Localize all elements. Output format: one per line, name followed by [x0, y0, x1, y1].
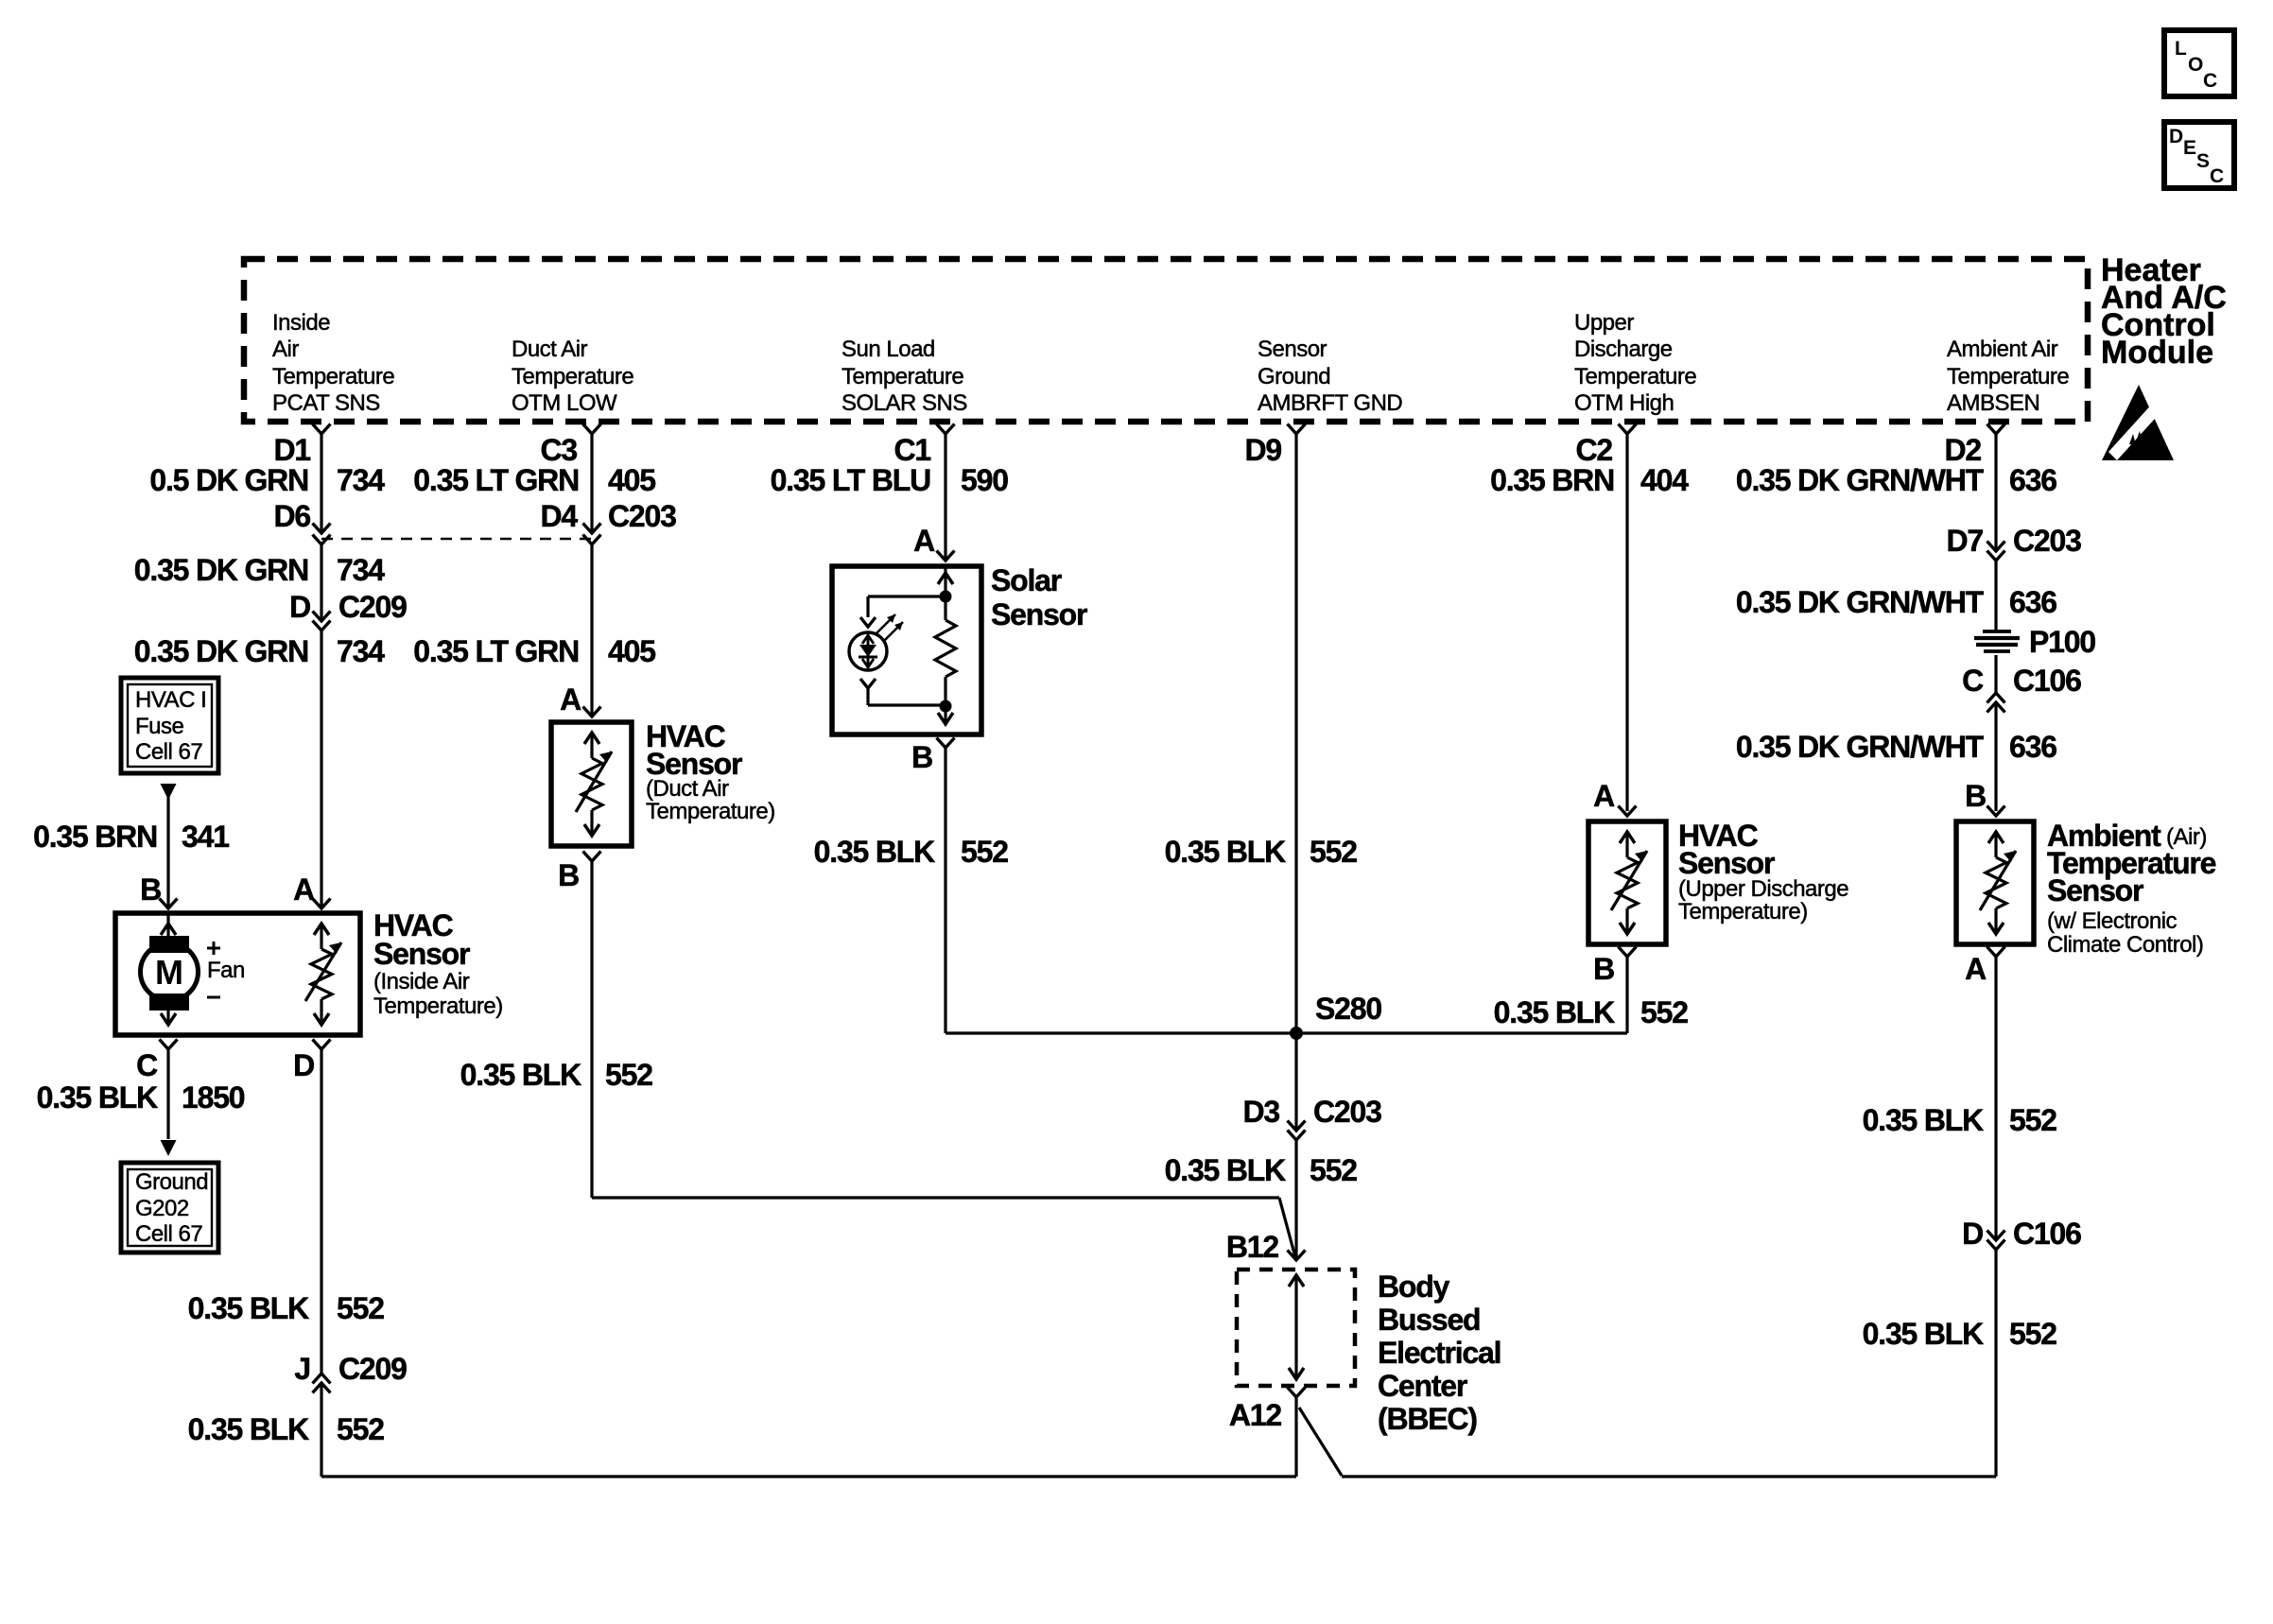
svg-text:0.35 BLK: 0.35 BLK [188, 1291, 309, 1325]
ambient temperature sensor box [1956, 821, 2034, 944]
svg-text:636: 636 [2009, 730, 2056, 764]
inline connector C203 dashed line [321, 538, 592, 541]
connector C203 D7 arrow [1987, 542, 2005, 552]
pin function label SOLAR SNS (Sun Load Temperature) [842, 337, 967, 416]
pin function label PCAT SNS (Inside Air Temperature) [272, 310, 394, 416]
svg-text:Cell 67: Cell 67 [135, 1221, 202, 1247]
HVAC sensor box (Duct Air Temperature) [551, 722, 632, 846]
pin B label at blower motor [140, 872, 161, 907]
svg-text:A: A [1965, 952, 1987, 986]
svg-text:734: 734 [337, 634, 385, 668]
svg-text:Sensor: Sensor [1258, 337, 1327, 362]
svg-text:AMBRFT GND: AMBRFT GND [1258, 390, 1402, 416]
svg-text:405: 405 [608, 634, 655, 668]
connector C106 pin D label [1962, 1217, 2081, 1251]
duct air temperature thermistor [576, 733, 612, 836]
ground bus wire (left segment) [321, 1475, 1296, 1477]
svg-text:404: 404 [1640, 463, 1689, 497]
pin B chevron below duct sensor [583, 852, 601, 862]
connector C106 pin C label [1962, 664, 2081, 698]
wire 552 from solar sensor to splice S280 [946, 748, 1296, 1033]
svg-text:590: 590 [961, 463, 1008, 497]
svg-text:D3: D3 [1242, 1095, 1279, 1129]
svg-text:734: 734 [337, 463, 385, 497]
svg-text:Fan: Fan [207, 958, 245, 983]
wire 636 from D2 to C203 D7 [1994, 434, 1997, 551]
svg-text:0.35 BLK: 0.35 BLK [1165, 835, 1286, 869]
svg-text:C3: C3 [540, 433, 577, 467]
svg-text:Sensor: Sensor [1678, 846, 1775, 880]
svg-text:Bussed: Bussed [1378, 1303, 1480, 1337]
svg-text:(Duct Air: (Duct Air [646, 776, 729, 802]
pin B label at solar sensor [911, 740, 932, 774]
svg-text:0.35 BLK: 0.35 BLK [460, 1058, 581, 1092]
power feed arrow from fuse [161, 784, 177, 800]
svg-text:(w/ Electronic: (w/ Electronic [2047, 908, 2178, 934]
connector chart box LOC [2164, 30, 2234, 96]
pin D6 label [273, 499, 310, 533]
diagonal wire from A12 to right ground bus [1299, 1408, 1342, 1476]
ground feed arrow [161, 1140, 177, 1156]
pin A label at ambient sensor [1965, 952, 1987, 986]
wire 636 from C106 to ambient sensor pin B [1994, 702, 1997, 811]
wire 552 from C203 to BBEC B12 [1294, 1140, 1297, 1260]
label 0.35 DK GRN/WHT 636 [1736, 463, 2056, 497]
label 0.35 LT GRN 405 [413, 463, 655, 497]
svg-text:552: 552 [2009, 1103, 2056, 1137]
solar sensor name label [991, 563, 1087, 631]
BBEC name label [1378, 1270, 1501, 1436]
svg-text:A: A [913, 524, 935, 558]
svg-text:0.35 BLK: 0.35 BLK [1863, 1103, 1984, 1137]
pin A chevron at solar sensor [937, 551, 955, 561]
svg-text:C1: C1 [894, 433, 930, 467]
wire 636 from C203 to grommet P100 [1994, 561, 1997, 631]
svg-text:A12: A12 [1229, 1398, 1282, 1432]
blower motor M symbol [141, 913, 199, 1025]
svg-text:B12: B12 [1226, 1230, 1279, 1264]
wire 552 from C209 J to ground bus [320, 1383, 322, 1477]
svg-text:Upper: Upper [1574, 310, 1634, 336]
svg-text:B: B [911, 740, 932, 774]
svg-text:D6: D6 [273, 499, 310, 533]
svg-text:S: S [2196, 150, 2210, 172]
svg-text:C203: C203 [2013, 524, 2081, 558]
wire 552 from C106 to ground bus [1994, 1250, 1997, 1477]
svg-text:Ground: Ground [135, 1169, 208, 1195]
wire 552 from S280 to C203 D3 [1294, 1033, 1297, 1131]
svg-text:(BBEC): (BBEC) [1378, 1402, 1477, 1436]
pin B label at duct sensor [558, 858, 579, 892]
label 0.35 DK GRN/WHT 636 (third) [1736, 730, 2056, 764]
pin A label at upper discharge sensor [1593, 779, 1615, 813]
motor polarity plus sign [207, 942, 220, 955]
connector C106 C up-arrow [1987, 702, 2005, 713]
svg-text:Ground: Ground [1258, 364, 1330, 389]
svg-text:P100: P100 [2029, 625, 2095, 659]
label Fan [207, 958, 245, 983]
connector C203 chevron (wire 2) [583, 535, 601, 545]
pin A12 label [1229, 1398, 1282, 1432]
pin B chevron [160, 899, 178, 909]
svg-text:552: 552 [605, 1058, 652, 1092]
ground box G202 Cell 67 [121, 1163, 218, 1253]
pin function label OTM LOW (Duct Air Temperature) [512, 337, 633, 416]
svg-text:552: 552 [961, 835, 1008, 869]
fuse box HVAC I Fuse Cell 67 [121, 678, 218, 773]
svg-text:C203: C203 [1313, 1095, 1381, 1129]
svg-text:Module: Module [2101, 335, 2213, 371]
module name label Heater And A/C Control Module [2101, 252, 2227, 371]
pin B12 chevron [1288, 1251, 1306, 1261]
wire 405 from C203 to duct sensor pin A [590, 544, 593, 717]
photodiode light arrows [876, 614, 903, 641]
svg-text:Sensor: Sensor [2047, 873, 2143, 907]
label 0.5 DK GRN 734 [149, 463, 385, 497]
svg-text:A: A [293, 872, 315, 907]
grommet P100 symbol [1974, 631, 2020, 651]
svg-text:0.35 DK GRN: 0.35 DK GRN [134, 634, 308, 668]
svg-text:341: 341 [182, 820, 229, 854]
svg-text:Discharge: Discharge [1574, 337, 1673, 362]
svg-text:Sensor: Sensor [991, 597, 1087, 631]
wire 734 from C209 to HVAC sensor pin A [320, 631, 322, 908]
svg-text:D: D [1962, 1217, 1983, 1251]
connector C106 D chevron [1987, 1240, 2005, 1251]
wire 404 from C2 to upper discharge sensor [1625, 434, 1628, 811]
svg-text:Sun Load: Sun Load [842, 337, 935, 362]
pin A chevron at upper discharge sensor [1619, 806, 1637, 817]
label 0.35 BLK 552 (above J) [188, 1291, 385, 1325]
connector C203 arrow (D4 side) [583, 524, 601, 534]
svg-text:552: 552 [1310, 1153, 1357, 1187]
svg-text:J: J [294, 1352, 310, 1386]
connector C209 J up-arrow [313, 1383, 331, 1393]
connector C209 arrow [313, 612, 331, 622]
svg-text:G202: G202 [135, 1196, 189, 1221]
svg-text:0.35 DK GRN/WHT: 0.35 DK GRN/WHT [1736, 463, 1985, 497]
svg-text:B: B [140, 872, 161, 907]
connector C203 D7 chevron [1987, 551, 2005, 561]
svg-text:C: C [136, 1048, 158, 1082]
label 0.35 DK GRN/WHT 636 (second) [1736, 585, 2056, 619]
wire 552 from motor pin D to C209 J [320, 1049, 322, 1373]
connector C106 D arrow [1987, 1231, 2005, 1241]
svg-text:C203: C203 [608, 499, 676, 533]
solar sensor internal wiring [860, 566, 953, 627]
HVAC sensor box (Upper Discharge Temperature) [1588, 821, 1666, 944]
svg-text:D: D [293, 1048, 314, 1082]
label 0.35 BLK 1850 [37, 1080, 245, 1114]
pin C3 connector at module [540, 424, 600, 468]
svg-text:405: 405 [608, 463, 655, 497]
label 0.35 BLK 552 (duct sensor) [460, 1058, 653, 1092]
pin C chevron below motor box [160, 1040, 178, 1050]
svg-text:0.35 BRN: 0.35 BRN [1490, 463, 1614, 497]
svg-text:Temperature: Temperature [512, 364, 633, 389]
svg-text:B: B [558, 858, 579, 892]
svg-text:OTM LOW: OTM LOW [512, 390, 617, 416]
svg-text:0.35 LT GRN: 0.35 LT GRN [413, 634, 579, 668]
pin A12 chevron [1288, 1388, 1306, 1398]
connector C209 pin J label [294, 1352, 407, 1386]
svg-text:Cell 67: Cell 67 [135, 739, 202, 765]
module dashed box: Heater And A/C Control Module [244, 259, 2088, 422]
svg-text:0.35 BLK: 0.35 BLK [188, 1412, 309, 1446]
svg-text:0.35 BLK: 0.35 BLK [37, 1080, 158, 1114]
connector C203 pin D7 label [1946, 524, 2081, 558]
connector C209 pin D label [289, 590, 407, 624]
connector C209 J chevron [313, 1373, 331, 1384]
pin function label AMBSEN (Ambient Air Temperature) [1947, 337, 2069, 416]
svg-text:D2: D2 [1944, 433, 1981, 467]
label 0.35 BLK 552 (below J) [188, 1412, 385, 1446]
svg-text:A: A [1593, 779, 1615, 813]
pin A chevron [313, 899, 331, 909]
svg-text:Temperature): Temperature) [646, 799, 775, 824]
pin B label at upper discharge sensor [1593, 952, 1614, 986]
solar sensor lower-left wiring [860, 679, 952, 713]
connector C203 arrow (D6 side) [313, 524, 331, 534]
svg-text:0.5 DK GRN: 0.5 DK GRN [149, 463, 308, 497]
connector C203 D3 arrow [1288, 1121, 1306, 1132]
svg-text:C106: C106 [2013, 1217, 2081, 1251]
svg-text:0.35 BLK: 0.35 BLK [1494, 995, 1615, 1029]
solar sensor photodiode [849, 632, 887, 670]
label 0.35 BRN 341 [33, 820, 229, 854]
upper discharge thermistor [1611, 832, 1647, 934]
label 0.35 BLK 552 (sensor ground) [1165, 835, 1358, 869]
pin A chevron below ambient sensor [1987, 947, 2005, 958]
svg-text:0.35 BLK: 0.35 BLK [1863, 1317, 1984, 1351]
pin A label at solar sensor [913, 524, 935, 558]
HVAC sensor (upper discharge) name label [1678, 819, 1848, 924]
svg-text:Temperature): Temperature) [373, 993, 503, 1019]
pin function label AMBRFT GND (Sensor Ground) [1258, 337, 1402, 416]
svg-text:Fuse: Fuse [135, 714, 184, 739]
svg-text:D4: D4 [540, 499, 578, 533]
pin D4 label [540, 499, 676, 533]
svg-text:Temperature: Temperature [842, 364, 963, 389]
svg-text:1850: 1850 [182, 1080, 245, 1114]
splice S280 junction dot [1290, 1027, 1303, 1040]
pin A chevron at duct sensor [583, 707, 601, 717]
label 0.35 DK GRN 734 (lower) [134, 634, 385, 668]
svg-text:Center: Center [1378, 1369, 1467, 1403]
svg-text:D: D [289, 590, 310, 624]
wire 734 from C203 to C209 [320, 544, 322, 621]
svg-text:E: E [2183, 137, 2196, 159]
label 0.35 LT GRN 405 (lower) [413, 634, 655, 668]
svg-text:Electrical: Electrical [1378, 1336, 1501, 1370]
label 0.35 BRN 404 [1490, 463, 1689, 497]
svg-text:0.35 DK GRN/WHT: 0.35 DK GRN/WHT [1736, 585, 1985, 619]
motor polarity minus sign [207, 996, 220, 999]
wire 552 from duct sensor to BBEC B12 [592, 861, 1295, 1257]
svg-text:552: 552 [1310, 835, 1357, 869]
svg-text:552: 552 [337, 1412, 384, 1446]
connector C203 D3 chevron [1288, 1131, 1306, 1141]
ESD-sensitive device warning symbol [2102, 385, 2174, 460]
wire 590 from C1 to solar sensor [944, 434, 946, 561]
pin D1 connector at module [273, 424, 330, 468]
svg-text:A: A [560, 682, 581, 717]
svg-text:C106: C106 [2013, 664, 2081, 698]
svg-text:OTM High: OTM High [1574, 390, 1674, 416]
svg-text:0.35 DK GRN: 0.35 DK GRN [134, 553, 308, 587]
pin function label OTM High (Upper Discharge Temperature) [1574, 310, 1696, 416]
connector C106 C chevron [1987, 693, 2005, 703]
connector C209 chevron [313, 621, 331, 631]
pin D9 connector at module [1244, 424, 1305, 468]
svg-text:0.35 LT BLU: 0.35 LT BLU [771, 463, 930, 497]
svg-text:M: M [155, 953, 183, 992]
inside air temperature thermistor [305, 924, 341, 1025]
pin C label [136, 1048, 158, 1082]
connector C203 pin D3 label [1242, 1095, 1381, 1129]
svg-text:552: 552 [1640, 995, 1688, 1029]
label 0.35 LT BLU 590 [771, 463, 1009, 497]
svg-text:0.35 DK GRN/WHT: 0.35 DK GRN/WHT [1736, 730, 1985, 764]
svg-text:B: B [1593, 952, 1614, 986]
svg-text:C209: C209 [338, 1352, 407, 1386]
svg-text:L: L [2175, 38, 2187, 60]
BBEC internal wire with arrows [1289, 1275, 1304, 1379]
ground bus wire (right segment) [1342, 1475, 1996, 1477]
svg-text:Duct Air: Duct Air [512, 337, 588, 362]
solar sensor internal resistor [935, 596, 956, 706]
solar sensor bottom exit arrow [938, 706, 953, 724]
label P100 [2029, 625, 2095, 659]
pin C2 connector at module [1575, 424, 1636, 468]
svg-text:Air: Air [272, 337, 299, 362]
svg-text:636: 636 [2009, 585, 2056, 619]
wire from BBEC A12 down to ground bus [1294, 1397, 1297, 1477]
solar sensor box [832, 566, 981, 734]
svg-text:552: 552 [2009, 1317, 2056, 1351]
svg-text:0.35 LT GRN: 0.35 LT GRN [413, 463, 579, 497]
svg-text:S280: S280 [1315, 992, 1381, 1026]
svg-text:0.35 BRN: 0.35 BRN [33, 820, 157, 854]
wire 341 from fuse to blower motor pin B [166, 784, 169, 908]
svg-text:Temperature: Temperature [1947, 364, 2069, 389]
pin B label at ambient sensor [1965, 779, 1986, 813]
svg-text:(Inside Air: (Inside Air [373, 969, 470, 994]
svg-text:SOLAR SNS: SOLAR SNS [842, 390, 967, 416]
pin B12 label [1226, 1230, 1279, 1264]
svg-text:Inside: Inside [272, 310, 330, 336]
svg-text:O: O [2188, 54, 2203, 76]
svg-text:Body: Body [1378, 1270, 1450, 1304]
label 0.35 BLK 552 (ambient lower) [1863, 1317, 2057, 1351]
connector chart box DESC [2164, 122, 2234, 188]
label 0.35 DK GRN 734 [134, 553, 385, 587]
svg-text:C: C [2203, 70, 2217, 92]
HVAC sensor (duct air) name label [646, 719, 775, 824]
pin C1 connector at module [894, 424, 954, 468]
wire 552 from upper discharge sensor to S280 [1296, 957, 1627, 1033]
label 0.35 BLK 552 (solar) [814, 835, 1009, 869]
pin D2 connector at module [1944, 424, 2004, 468]
svg-text:552: 552 [337, 1291, 384, 1325]
label S280 [1315, 992, 1381, 1026]
wire 405 from C3 to C203 [590, 434, 593, 533]
svg-text:636: 636 [2009, 463, 2056, 497]
svg-text:D7: D7 [1946, 524, 1983, 558]
svg-text:C: C [1962, 664, 1984, 698]
label 0.35 BLK 552 (below D3) [1165, 1153, 1358, 1187]
svg-text:HVAC I: HVAC I [135, 687, 206, 713]
label 0.35 BLK 552 (ambient upper) [1863, 1103, 2057, 1137]
svg-text:D9: D9 [1244, 433, 1281, 467]
pin A label at duct sensor [560, 682, 581, 717]
HVAC sensor (inside air) name label [373, 908, 503, 1019]
svg-text:Temperature: Temperature [272, 364, 394, 389]
BBEC dashed box [1237, 1270, 1355, 1386]
wire 552 from D9 to splice S280 [1294, 434, 1297, 1033]
ambient temperature sensor name label [2047, 819, 2216, 958]
pin D label [293, 1048, 314, 1082]
svg-text:Sensor: Sensor [373, 937, 470, 971]
ambient air temperature thermistor [1980, 832, 2016, 934]
HVAC sensor / blower motor box (Inside Air Temperature) [115, 913, 360, 1035]
label 0.35 BLK 552 (upper discharge) [1494, 995, 1689, 1029]
pin B chevron at ambient sensor [1987, 806, 2005, 817]
pin B chevron below solar sensor [937, 738, 955, 749]
svg-text:PCAT SNS: PCAT SNS [272, 390, 380, 416]
wire 636 from P100 to C106 C [1994, 655, 1997, 693]
pin B chevron below upper discharge sensor [1619, 947, 1637, 958]
wire 552 from ambient sensor to C106 D [1994, 957, 1997, 1240]
connector C203 chevron (below, wire 1) [313, 535, 331, 545]
svg-text:B: B [1965, 779, 1986, 813]
svg-text:AMBSEN: AMBSEN [1947, 390, 2039, 416]
svg-text:0.35 BLK: 0.35 BLK [1165, 1153, 1286, 1187]
svg-text:0.35 BLK: 0.35 BLK [814, 835, 935, 869]
svg-text:D1: D1 [273, 433, 310, 467]
svg-text:D: D [2169, 126, 2183, 147]
svg-text:Temperature: Temperature [1574, 364, 1696, 389]
pin D chevron below motor box [313, 1040, 331, 1050]
svg-text:C2: C2 [1575, 433, 1612, 467]
svg-text:Temperature): Temperature) [1678, 899, 1808, 924]
svg-text:C209: C209 [338, 590, 407, 624]
svg-text:Ambient Air: Ambient Air [1947, 337, 2058, 362]
svg-text:734: 734 [337, 553, 385, 587]
pin A label at inside-air HVAC sensor [293, 872, 315, 907]
svg-text:(Upper Discharge: (Upper Discharge [1678, 876, 1848, 902]
wire 734 from D1 to C203 [320, 434, 322, 533]
wire 1850 from motor pin C to ground [166, 1049, 169, 1139]
svg-text:C: C [2210, 165, 2224, 187]
svg-text:Solar: Solar [991, 563, 1062, 597]
svg-text:Climate Control): Climate Control) [2047, 932, 2203, 958]
